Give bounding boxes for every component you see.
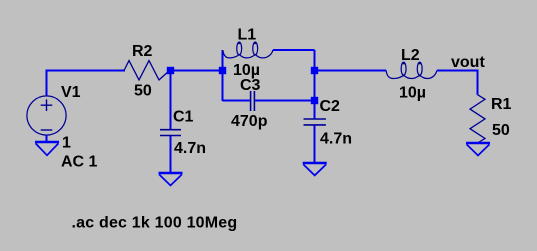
capacitor C3 xyxy=(251,91,255,111)
svg-text:V1: V1 xyxy=(61,84,81,101)
ground below R1 xyxy=(466,143,490,156)
voltage source V1 xyxy=(27,96,66,135)
svg-text:AC 1: AC 1 xyxy=(61,154,98,171)
ground below V1 xyxy=(35,142,59,155)
resistor R1 xyxy=(470,95,485,143)
svg-text:L2: L2 xyxy=(401,47,420,64)
wire junction A to junction B xyxy=(171,70,223,72)
wire junction C to L2 xyxy=(318,70,386,72)
ground below C2 xyxy=(303,163,327,175)
node junction D xyxy=(311,97,318,104)
wire right vertical of parallel branch xyxy=(314,50,316,119)
wire V1 bottom stub xyxy=(46,135,48,142)
svg-text:10µ: 10µ xyxy=(399,85,426,102)
svg-text:50: 50 xyxy=(134,83,152,100)
inductor L2 xyxy=(386,62,437,79)
svg-text:R1: R1 xyxy=(491,96,512,113)
wire C2 to ground xyxy=(314,126,316,164)
svg-text:R2: R2 xyxy=(132,43,153,60)
svg-text:vout: vout xyxy=(451,54,485,71)
wire C1 to ground xyxy=(170,136,172,173)
wire C3 branch right xyxy=(255,100,314,102)
wire L2 to R1 corner xyxy=(437,71,478,95)
svg-text:470p: 470p xyxy=(231,113,268,130)
inductor L1 xyxy=(223,42,273,58)
svg-text:C1: C1 xyxy=(173,109,194,126)
node junction A xyxy=(167,67,174,74)
node junction B xyxy=(219,67,226,74)
svg-text:4.7n: 4.7n xyxy=(320,131,352,148)
svg-text:.ac dec 1k 100 10Meg: .ac dec 1k 100 10Meg xyxy=(72,215,238,232)
svg-text:50: 50 xyxy=(492,122,510,139)
svg-text:L1: L1 xyxy=(238,27,257,44)
wire C3 branch left xyxy=(223,100,250,102)
wire left vertical of parallel branch xyxy=(222,50,224,101)
capacitor C1 xyxy=(160,130,181,136)
svg-text:C2: C2 xyxy=(320,98,341,115)
wire from V1 top to R2 xyxy=(47,71,126,96)
ground below C1 xyxy=(159,173,183,186)
svg-text:C3: C3 xyxy=(240,77,261,94)
wire C1 branch down xyxy=(170,74,172,129)
svg-text:4.7n: 4.7n xyxy=(174,140,206,157)
wire L1 to right vertical xyxy=(273,49,315,51)
capacitor C2 xyxy=(304,119,326,125)
node junction C xyxy=(311,67,318,74)
resistor R2 xyxy=(124,61,170,80)
svg-text:1: 1 xyxy=(62,135,71,152)
